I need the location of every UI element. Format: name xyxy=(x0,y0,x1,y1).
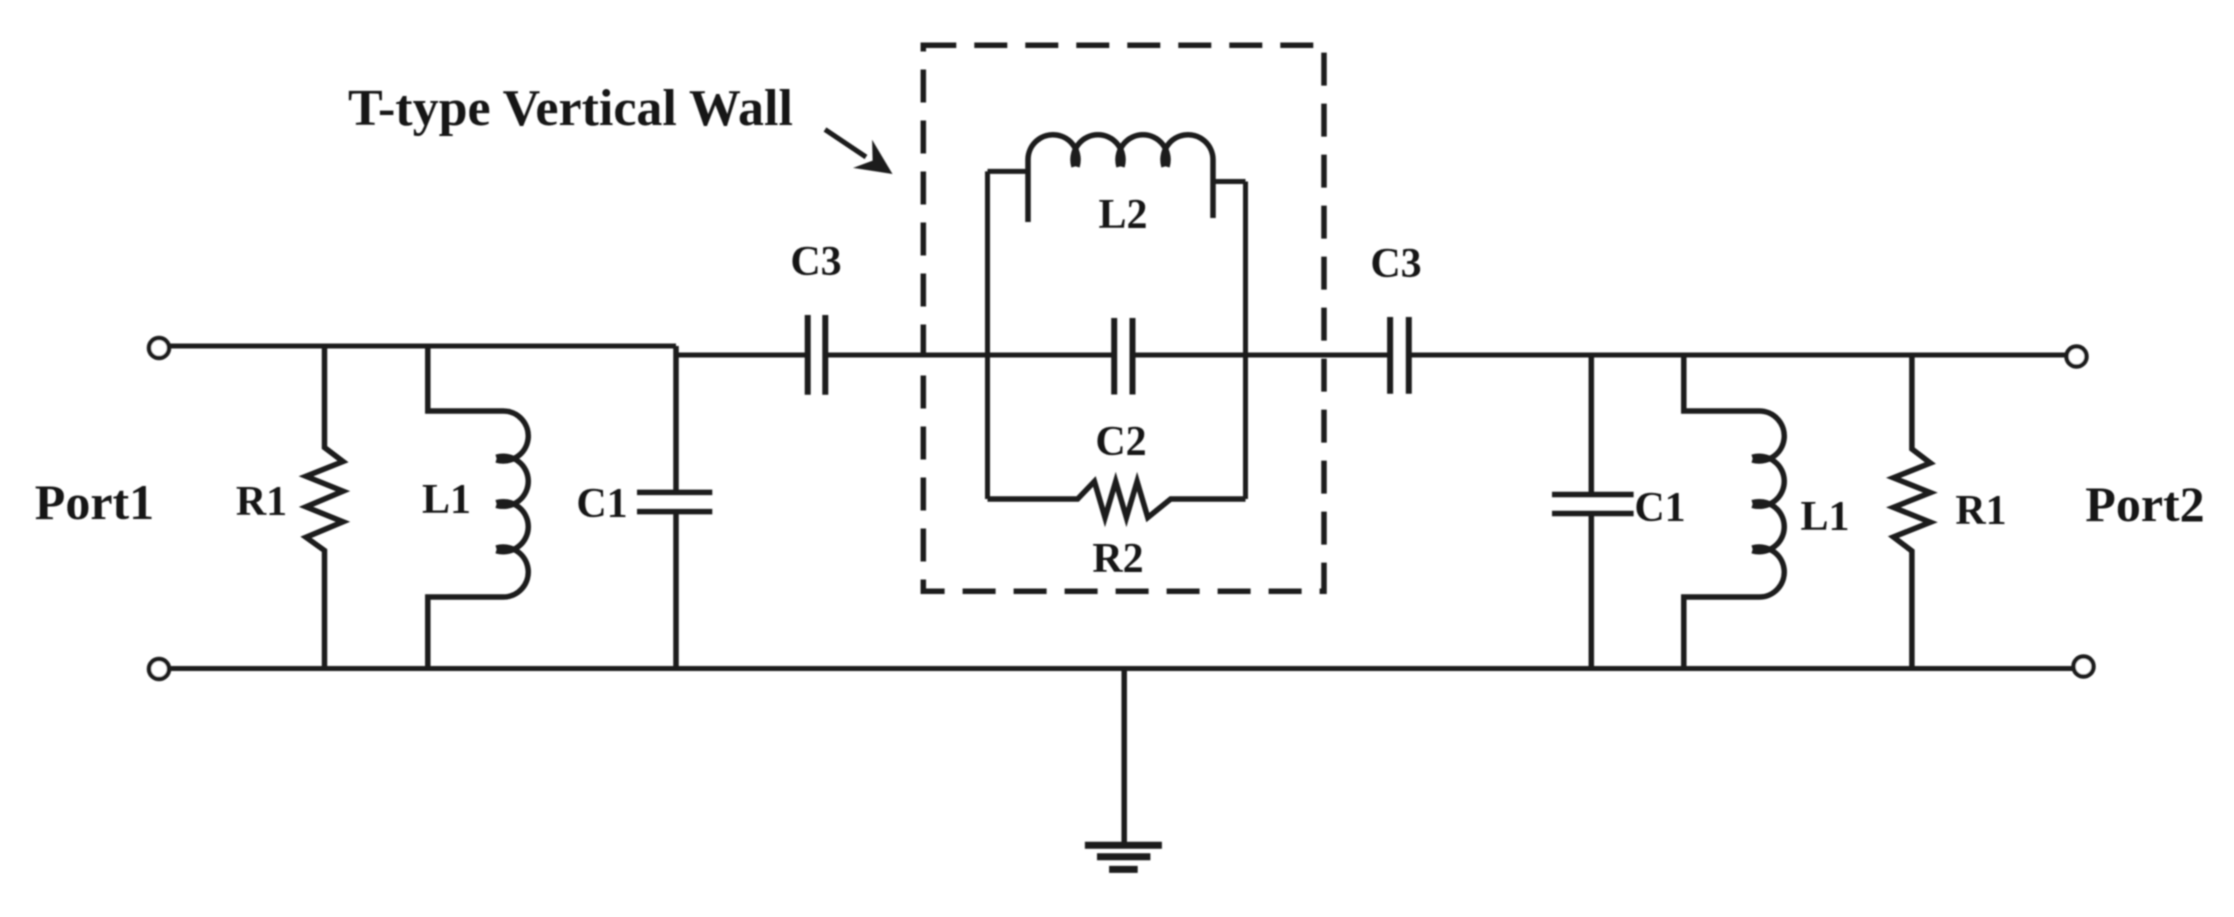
capacitor C1 (right) xyxy=(1552,355,1634,669)
svg-text:R2: R2 xyxy=(1092,536,1143,582)
capacitor C3 (right, series) xyxy=(1390,317,1409,394)
wire step at C1 junction xyxy=(674,346,679,355)
capacitor C3 (left, series) xyxy=(808,315,826,395)
inductor L1 (left) xyxy=(428,346,528,669)
dashed box T-type vertical wall xyxy=(923,45,1324,591)
terminal Port2 top xyxy=(2067,347,2087,367)
wire top rail left (Port1 to C1 junction) xyxy=(169,344,676,349)
svg-text:C3: C3 xyxy=(1370,241,1421,287)
wire top rail C1 to C3 left plate xyxy=(676,353,808,358)
wire top rail right C3 to Port2 xyxy=(1409,353,2067,358)
wire L2 right connector xyxy=(1213,179,1246,184)
terminal Port2 bottom xyxy=(2074,657,2094,677)
svg-text:Port2: Port2 xyxy=(2085,476,2204,532)
resistor R2 with inner bottom rail xyxy=(988,482,1246,518)
svg-text:C1: C1 xyxy=(576,481,627,527)
wire L2 left connector xyxy=(988,169,1029,174)
wire top rail C2 to right C3 xyxy=(1133,353,1391,358)
capacitor C1 (left) xyxy=(637,346,712,669)
svg-text:T-type Vertical Wall: T-type Vertical Wall xyxy=(348,80,793,137)
wire bottom rail xyxy=(169,666,2073,671)
inductor L1 (right) xyxy=(1684,355,1784,669)
svg-text:C1: C1 xyxy=(1634,485,1685,531)
ground xyxy=(1085,669,1162,870)
svg-text:R1: R1 xyxy=(236,479,287,525)
svg-text:L1: L1 xyxy=(1800,494,1849,540)
terminal Port1 top xyxy=(149,338,169,358)
svg-text:Port1: Port1 xyxy=(35,474,154,530)
inductor L2 xyxy=(1028,135,1213,222)
svg-text:L1: L1 xyxy=(422,477,471,523)
svg-text:R1: R1 xyxy=(1955,488,2006,534)
svg-text:C3: C3 xyxy=(790,239,841,285)
svg-text:C2: C2 xyxy=(1095,419,1146,465)
terminal Port1 bottom xyxy=(149,659,169,679)
node inner left branch xyxy=(985,171,990,499)
arrow to dashed box xyxy=(825,130,866,158)
resistor R1 (right) xyxy=(1893,355,1930,669)
node inner right branch xyxy=(1243,182,1248,500)
svg-text:L2: L2 xyxy=(1098,192,1147,238)
capacitor C2 xyxy=(1114,318,1132,395)
wire top rail C3 to C2 left plate xyxy=(825,353,1114,358)
resistor R1 (left) xyxy=(306,346,343,669)
